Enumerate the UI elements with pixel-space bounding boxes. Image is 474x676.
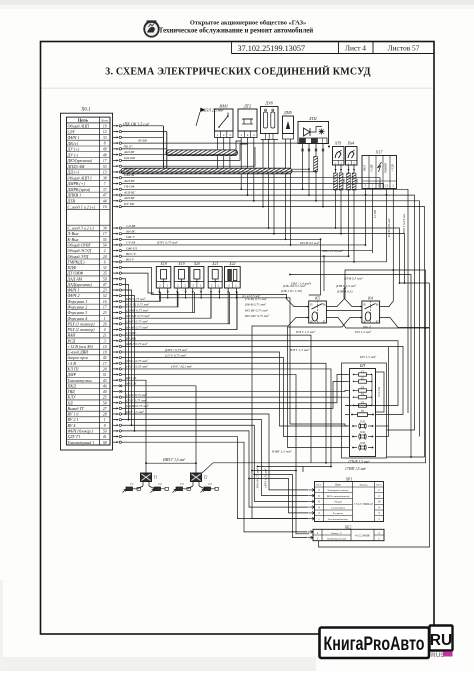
fuse F6 [345, 410, 389, 417]
svg-text:8: 8 [104, 142, 106, 146]
svg-text:44: 44 [103, 199, 107, 203]
svg-text:Техническое обслуживание и рем: Техническое обслуживание и ремонт автомо… [159, 28, 313, 35]
svg-text:СЛ-ВЗ: СЛ-ВЗ [126, 224, 136, 228]
svg-text:34: 34 [103, 227, 107, 231]
svg-text:Вывод ТГ: Вывод ТГ [68, 406, 85, 411]
svg-text:Форсунка 2: Форсунка 2 [68, 305, 88, 310]
svg-text:ХП2: ХП2 [308, 116, 317, 121]
svg-text:33: 33 [103, 136, 107, 140]
watermark KnigaProAvto [320, 626, 453, 660]
svg-text:Х21: Х21 [211, 262, 218, 266]
svg-text:+12В: +12В [390, 164, 394, 171]
svg-text:48: 48 [103, 153, 107, 157]
svg-text:ВУ 1 6: ВУ 1 6 [68, 412, 79, 417]
svg-text:1: 1 [104, 317, 106, 321]
coil supply wire [145, 458, 311, 473]
svg-text:32: 32 [103, 266, 107, 270]
svg-text:ХДУ Г1: ХДУ Г1 [67, 434, 81, 439]
harness sleeve A [166, 150, 238, 156]
svg-text:РСД: РСД [67, 338, 76, 343]
svg-text:Общий АЦП: Общий АЦП [68, 124, 90, 129]
svg-text:+5 В: +5 В [68, 361, 77, 366]
svg-text:ДМРВ (врем): ДМРВ (врем) [67, 187, 91, 192]
svg-text:50: 50 [103, 429, 107, 433]
svg-text:Г2: Г2 [157, 482, 162, 486]
harness sleeve right [314, 157, 318, 172]
relay link wire [326, 310, 362, 312]
svg-text:Блокировка тангажа: Блокировка тангажа [328, 489, 350, 492]
svg-text:3. СХЕМА ЭЛЕКТРИЧЕСКИХ СОЕДИНЕ: 3. СХЕМА ЭЛЕКТРИЧЕСКИХ СОЕДИНЕНИЙ КМСУД [105, 66, 370, 78]
svg-text:ДАД(временн): ДАД(временн) [67, 282, 93, 287]
svg-text:Общий ЭУД: Общий ЭУД [68, 254, 89, 259]
injector connector Х22 [225, 262, 241, 296]
svg-text:К-Вых: К-Вых [67, 237, 79, 242]
svg-text:Лист 4: Лист 4 [345, 44, 366, 53]
svg-text:ВУ 2 1: ВУ 2 1 [68, 417, 79, 422]
svg-text:К4: К4 [367, 296, 373, 301]
svg-text:17-3,7-Б: 17-3,7-Б [378, 387, 381, 397]
wire name labels [123, 139, 378, 415]
svg-text:Запрос прог: Запрос прог [68, 355, 89, 360]
svg-text:СУ-ЗА: СУ-ЗА [126, 241, 136, 245]
svg-text:Общий ЭСУД: Общий ЭСУД [68, 248, 92, 253]
svg-text:Цепь: Цепь [78, 118, 89, 123]
svg-text:54: 54 [103, 244, 107, 248]
svg-text:РХХ (2 темпер): РХХ (2 темпер) [67, 327, 96, 332]
svg-text:51: 51 [103, 373, 107, 377]
svg-text:Бло автомобильная: Бло автомобильная [328, 518, 348, 521]
svg-text:С_вход 3 и 2 (-): С_вход 3 и 2 (-) [68, 226, 95, 231]
connector table XP1 [309, 477, 384, 521]
harness note flag [196, 108, 224, 127]
svg-text:21: 21 [103, 334, 107, 338]
svg-text:ГОЛ 3: ГОЛ 3 [123, 167, 133, 171]
fuse F5 [347, 401, 372, 407]
connector table XE2 [308, 525, 385, 540]
svg-text:37.102.25199.13057: 37.102.25199.13057 [238, 44, 306, 53]
svg-text:Привод: Привод [360, 484, 368, 487]
injector signal stubs [159, 296, 237, 329]
ignition coil T1 [138, 473, 157, 489]
svg-text:ФНЧ 2: ФНЧ 2 [68, 293, 80, 298]
svg-text:ДМ5: ДМ5 [283, 110, 292, 115]
svg-text:ФНЧ 1: ФНЧ 1 [68, 135, 80, 140]
svg-text:49: 49 [103, 147, 107, 151]
svg-text:25: 25 [103, 396, 107, 400]
svg-text:ДМР: ДМР [67, 372, 77, 377]
svg-text:53: 53 [103, 165, 107, 169]
svg-text:Общий ОУВГ: Общий ОУВГ [68, 243, 92, 248]
fuse F1 [347, 370, 372, 376]
svg-text:ПДФ: ПДФ [67, 265, 77, 270]
svg-text:Х20: Х20 [193, 262, 200, 266]
logo GAZ emblem [143, 20, 159, 37]
svg-text:Форсунка 1: Форсунка 1 [68, 299, 88, 304]
title block document row [232, 42, 435, 54]
injector common bus wire [159, 296, 347, 426]
svg-text:19: 19 [103, 124, 107, 128]
svg-text:43: 43 [103, 379, 107, 383]
feed wires bottom tables [248, 466, 331, 538]
svg-text:Х19: Х19 [177, 262, 184, 266]
svg-text:4-3,7,2-90000: 4-3,7,2-90000 [355, 535, 370, 538]
svg-text:58: 58 [103, 441, 107, 445]
svg-text:17-3,7-74000-10: 17-3,7-74000-10 [354, 503, 373, 506]
svg-text:ХД: ХД [67, 400, 73, 405]
svg-text:37: 37 [103, 188, 107, 192]
svg-text:7: 7 [104, 182, 106, 186]
svg-text:17: 17 [103, 159, 107, 163]
svg-text:С-вход ДВИ: С-вход ДВИ [68, 350, 90, 355]
connector X6.1 rows section 2 [67, 225, 111, 445]
svg-text:16: 16 [103, 300, 107, 304]
svg-text:ДУ8: ДУ8 [264, 101, 273, 106]
actuator DM5 [283, 110, 294, 246]
svg-text:ДТ2: ДТ2 [243, 104, 251, 109]
svg-text:Х17: Х17 [375, 150, 384, 155]
frame border [41, 42, 435, 635]
connector block X17 [362, 150, 397, 189]
svg-text:АШ-ВЗ: АШ-ВЗ [123, 179, 135, 183]
svg-text:52: 52 [103, 294, 107, 298]
svg-text:Конт: Конт [102, 118, 109, 122]
svg-text:16: 16 [103, 205, 107, 209]
svg-text:ДПКВ 1: ДПКВ 1 [67, 193, 82, 198]
fuse F2 [347, 377, 372, 383]
svg-text:(Пн с): (Пн с) [363, 325, 371, 329]
svg-text:Листов 57: Листов 57 [388, 44, 420, 53]
connector X6.1 pin leads [113, 125, 122, 444]
svg-text:СРТ: СРТ [68, 129, 76, 134]
wires injector rows [122, 292, 237, 329]
fuse block BP outer wire loop [342, 363, 387, 458]
relay IM1 [215, 104, 234, 169]
svg-text:С-ДВ: С-ДВ [370, 164, 374, 171]
svg-text:ПКД: ПКД [67, 383, 77, 388]
svg-text:Л-Вых: Л-Вых [67, 231, 79, 236]
svg-text:Т2: Т2 [204, 476, 208, 480]
sensor XT9 [333, 142, 345, 235]
svg-text:ГВД: ГВД [67, 389, 76, 394]
svg-text:41: 41 [103, 435, 107, 439]
svg-text:ДМРВ (+): ДМРВ (+) [67, 181, 86, 186]
injector connector Х19 [174, 262, 189, 296]
svg-text:АШ-ВГ: АШ-ВГ [123, 196, 136, 200]
svg-text:Т1: Т1 [154, 476, 158, 480]
svg-text:Общий: Общий [334, 501, 342, 504]
svg-text:3: 3 [104, 339, 106, 343]
svg-text:ВП-У: ВП-У [126, 258, 135, 262]
svg-text:ДПДЗ АМ: ДПДЗ АМ [67, 164, 86, 169]
svg-text:23: 23 [103, 289, 107, 293]
svg-text:35: 35 [103, 272, 107, 276]
svg-text:12: 12 [103, 130, 107, 134]
svg-text:ДКУ(временн): ДКУ(временн) [67, 158, 93, 163]
svg-text:ЗПП 1У-В мм²: ЗПП 1У-В мм² [322, 249, 344, 253]
wires sensor rows to components [122, 141, 425, 457]
svg-text:12 ПК: 12 ПК [373, 209, 377, 218]
svg-text:(П ПБ): (П ПБ) [126, 337, 137, 341]
svg-text:ОБЩИЙ: ОБЩИЙ [385, 163, 388, 173]
svg-text:РХХ (1 темпер): РХХ (1 темпер) [67, 321, 96, 326]
fuse F3 [347, 386, 372, 392]
svg-text:RU: RU [430, 632, 452, 649]
svg-text:38: 38 [103, 176, 107, 180]
svg-text:+12 В (осн Хб): +12 В (осн Хб) [68, 344, 94, 349]
svg-text:ОЗЛ Ж: ОЗЛ Ж [124, 173, 135, 177]
svg-text:ПД-ОЖ: ПД-ОЖ [123, 156, 136, 160]
svg-text:ВП СУ: ВП СУ [126, 252, 137, 256]
svg-text:ДУ (+): ДУ (+) [67, 147, 80, 152]
svg-text:ХТ9: ХТ9 [334, 142, 341, 146]
svg-text:23: 23 [103, 311, 107, 315]
injector connector Х21 [208, 262, 222, 296]
svg-text:40: 40 [103, 390, 107, 394]
svg-text:Г4: Г4 [207, 482, 212, 486]
svg-text:КнигаPʀoАвто: КнигаPʀoАвто [324, 633, 425, 655]
svg-text:27: 27 [103, 407, 107, 411]
svg-text:6: 6 [104, 260, 106, 264]
ignition module XU8 [261, 101, 279, 235]
svg-text:ИУ2 Ж: ИУ2 Ж [125, 382, 137, 386]
svg-text:24: 24 [103, 255, 107, 259]
svg-text:55: 55 [103, 238, 107, 242]
svg-text:1: 1 [104, 418, 106, 422]
coil leads to spark plugs [134, 488, 208, 490]
svg-text:F6: F6 [360, 410, 365, 413]
svg-text:Пн4: Пн4 [347, 142, 355, 146]
wire bus vertical pair [122, 126, 167, 168]
relay area labels [281, 284, 372, 335]
svg-text:ВКЛ с автомобильной: ВКЛ с автомобильной [327, 495, 350, 498]
svg-text:ГВ-ОЖ: ГВ-ОЖ [123, 185, 135, 189]
svg-text:ДУ (-): ДУ (-) [67, 152, 79, 157]
wires control rows right runs [122, 228, 405, 432]
svg-text:АШ-ВГ: АШ-ВГ [123, 150, 136, 154]
relay K4 [288, 270, 430, 448]
svg-text:ХР1: ХР1 [345, 477, 353, 481]
svg-text:Х6.1: Х6.1 [80, 108, 90, 113]
svg-text:28: 28 [103, 413, 107, 417]
svg-text:ФНЧ (блокир.): ФНЧ (блокир.) [68, 428, 94, 433]
connector pair ХЛ2 [345, 431, 389, 439]
svg-text:42: 42 [103, 356, 107, 360]
svg-text:18: 18 [103, 351, 107, 355]
connector X6.1 rows section 1 [67, 124, 111, 210]
svg-text:13: 13 [103, 171, 107, 175]
svg-text:17: 17 [103, 306, 107, 310]
svg-text:ДД (+): ДД (+) [67, 170, 80, 175]
svg-text:Резервная: Резервная [333, 512, 344, 515]
svg-text:ИУ1 Ж: ИУ1 Ж [125, 376, 137, 380]
svg-text:ВАН: ВАН [68, 333, 77, 338]
svg-text:Тахометр вых: Тахометр вых [68, 378, 92, 383]
svg-text:47: 47 [103, 194, 107, 198]
svg-text:Форсунка 3: Форсунка 3 [68, 310, 88, 315]
svg-text:Цепь: Цепь [335, 484, 341, 487]
svg-text:ИУ ЗЖ: ИУ ЗЖ [123, 202, 135, 206]
svg-text:Г1: Г1 [129, 482, 134, 486]
svg-text:14: 14 [103, 345, 107, 349]
relay K5 [252, 288, 430, 519]
svg-text:КЛ П1: КЛ П1 [67, 366, 79, 371]
svg-text:ДВ (с): ДВ (с) [67, 141, 79, 146]
svg-text:ВУ 4: ВУ 4 [68, 423, 76, 428]
X17 pin wires [365, 189, 394, 271]
svg-text:96 ЗЖ: 96 ЗЖ [138, 139, 148, 143]
svg-text:СО-БУ: СО-БУ [126, 331, 137, 335]
svg-text:С2: С2 [385, 183, 389, 187]
svg-text:Х18: Х18 [159, 262, 166, 266]
wires lower rows [122, 335, 403, 534]
svg-text:54: 54 [103, 401, 107, 405]
svg-text:4: 4 [104, 328, 106, 332]
svg-text:(45У / А21 мм²: (45У / А21 мм² [171, 365, 193, 369]
injector connector Х20 [190, 262, 204, 296]
svg-text:46: 46 [103, 384, 107, 388]
svg-text:Вывод +У: Вывод +У [331, 532, 342, 535]
svg-text:Х22: Х22 [228, 262, 235, 266]
fuse F4 [347, 393, 372, 399]
svg-text:ВКЛ: ВКЛ [363, 164, 367, 171]
spark plug F2 [151, 482, 169, 492]
svg-text:ОЖ-УЛ: ОЖ-УЛ [126, 246, 138, 250]
svg-text:47: 47 [103, 283, 107, 287]
svg-text:ДТВ: ДТВ [67, 199, 76, 204]
svg-text:Форсунка 4: Форсунка 4 [68, 316, 88, 321]
svg-text:Стеклообмыв: Стеклообмыв [331, 506, 346, 509]
svg-text:ДАД АМ: ДАД АМ [67, 276, 83, 281]
sensor PN4 [343, 142, 359, 263]
svg-text:17: 17 [103, 362, 107, 366]
spark plug F1 [123, 482, 141, 492]
harness sleeve B [121, 168, 292, 174]
connector X6.1 pin table frame [67, 117, 111, 445]
wire bus right margin [292, 168, 430, 547]
X17 return wire [345, 270, 426, 288]
relay XT2 [238, 104, 257, 202]
svg-text:КЛУ: КЛУ [67, 395, 77, 400]
svg-text:9: 9 [104, 424, 106, 428]
svg-text:Открытое акционерное общество: Открытое акционерное общество «ГАЗ» [190, 20, 306, 27]
svg-text:26: 26 [103, 322, 107, 326]
svg-text:АСВ ВГ: АСВ ВГ [123, 191, 136, 195]
svg-text:24: 24 [103, 367, 107, 371]
svg-text:ПБ ЗС: ПБ ЗС [123, 144, 134, 148]
svg-text:ФНЧ 1: ФНЧ 1 [68, 288, 80, 293]
spark plug F4 [201, 482, 219, 492]
svg-text:Тахометрный 1: Тахометрный 1 [68, 440, 95, 445]
svg-text:59: 59 [103, 277, 107, 281]
svg-text:ДТ ОЖФ: ДТ ОЖФ [67, 271, 84, 276]
diode unit XP2 [298, 116, 330, 208]
svg-text:Общий АЦП 1: Общий АЦП 1 [68, 175, 92, 180]
svg-text:АН ВС: АН ВС [125, 229, 136, 233]
connector pair ХЛ3 [345, 442, 373, 450]
ignition coil T2 [188, 473, 207, 489]
svg-text:2: 2 [104, 249, 106, 253]
svg-text:ГМРК(Д.): ГМРК(Д.) [67, 259, 86, 264]
svg-text:ИМ1: ИМ1 [218, 104, 228, 109]
svg-text:К5: К5 [314, 296, 320, 301]
connector pair ХЛ1 [345, 421, 389, 429]
svg-text:Г3: Г3 [179, 482, 184, 486]
svg-text:17: 17 [103, 232, 107, 236]
svg-text:Общий (временный): Общий (временный) [327, 537, 346, 540]
svg-text:С_вход 1 и 2 (+): С_вход 1 и 2 (+) [68, 204, 96, 209]
injector connector Х18 [156, 262, 171, 296]
svg-text:ХЕ2: ХЕ2 [344, 525, 352, 529]
spark plug F3 [173, 482, 191, 492]
fuse block BP [345, 363, 389, 457]
svg-text:ОЖ У: ОЖ У [126, 235, 135, 239]
connector X6.1 outer box [61, 113, 113, 450]
